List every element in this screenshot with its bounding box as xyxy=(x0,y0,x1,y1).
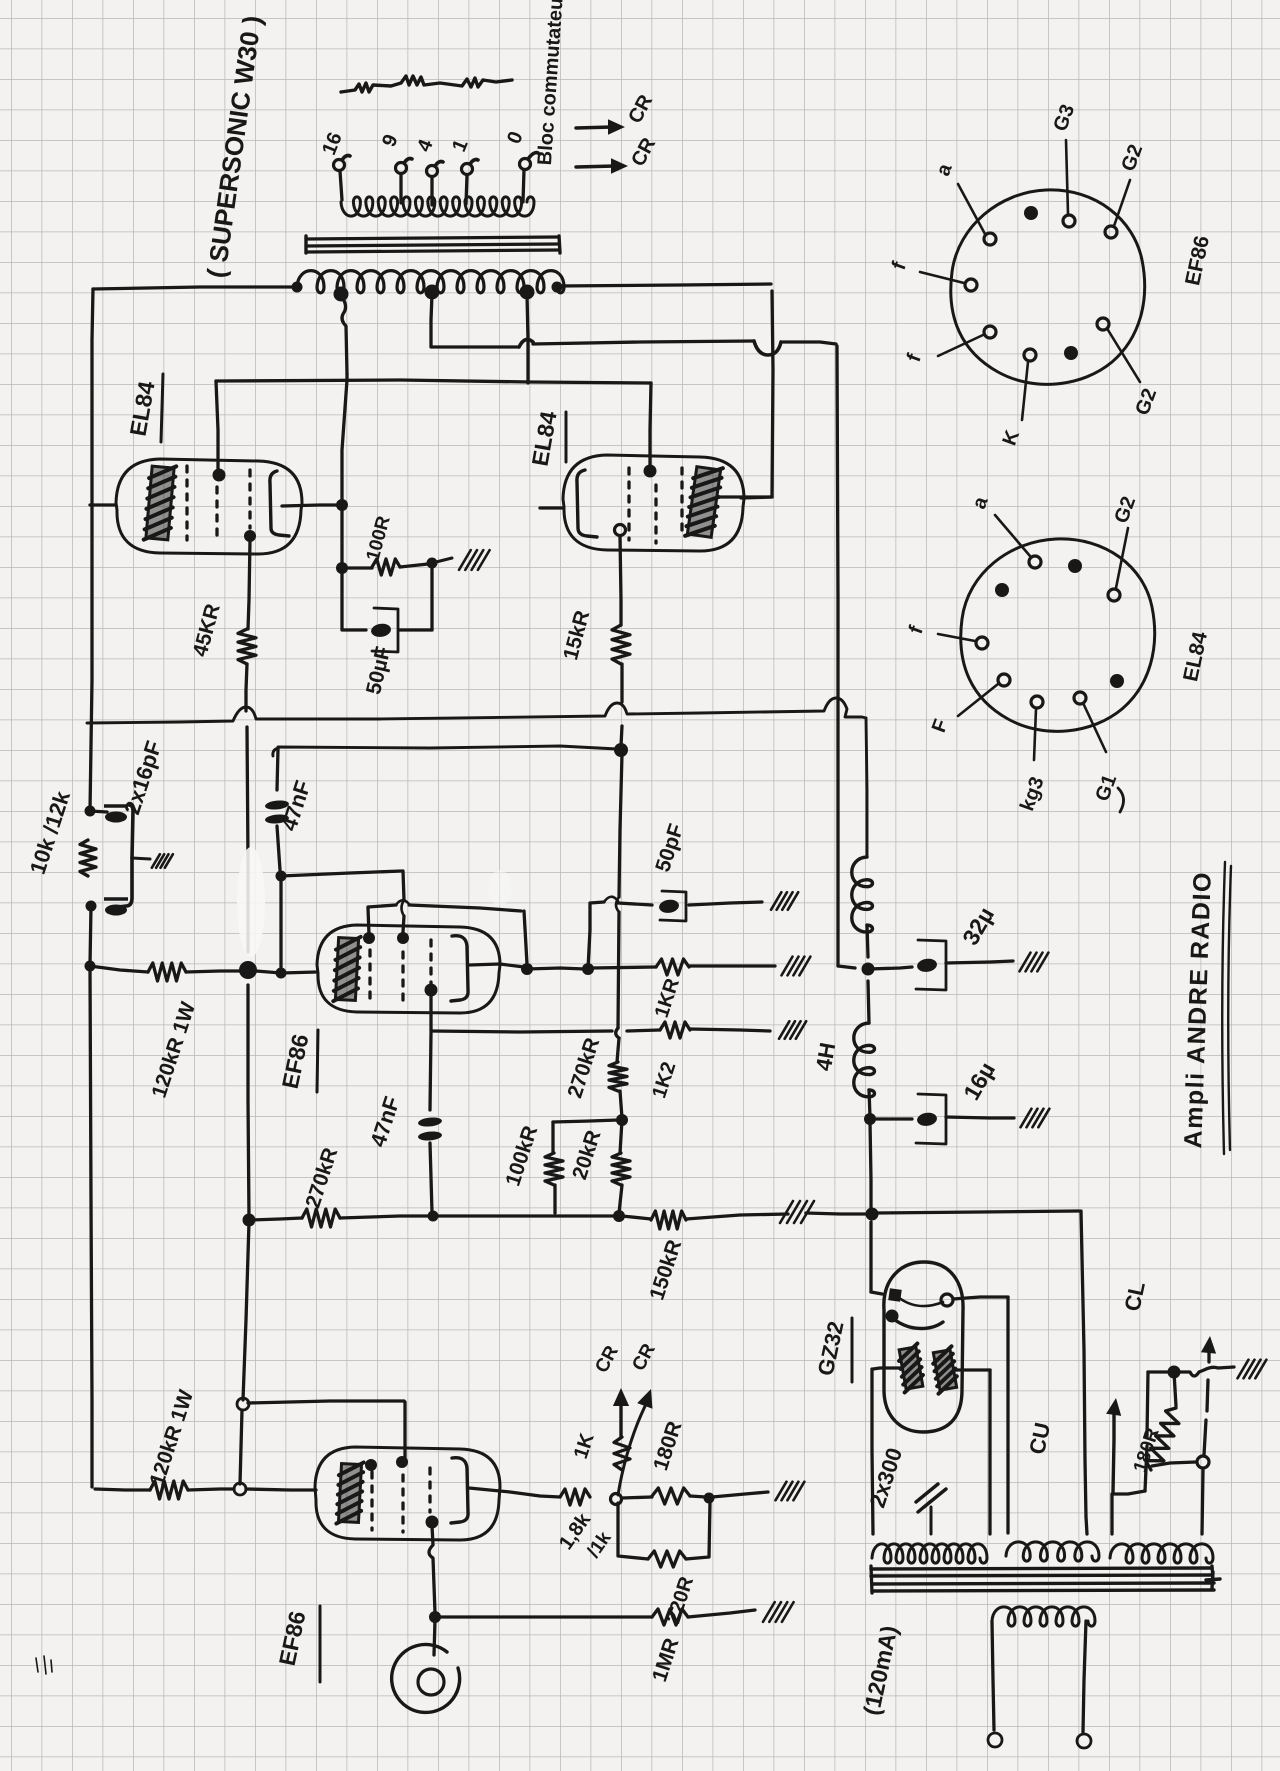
wire 100k to bus xyxy=(553,1185,556,1213)
wire anode line xyxy=(527,968,585,969)
tube GZ32 envelope xyxy=(884,1262,963,1432)
junction anode line 527 xyxy=(521,963,533,975)
wire screen node down xyxy=(430,1033,431,1110)
heater terminal left xyxy=(988,1733,1002,1747)
label EF86 V4 xyxy=(274,1606,320,1682)
wire choke to ground bus xyxy=(870,1121,871,1211)
resistor 180R bottom xyxy=(652,1488,690,1504)
wire ground bus seg6 xyxy=(806,1213,868,1214)
label 120kR 1W no2 xyxy=(146,1387,199,1489)
wire EF86 V3 pin1 up and right xyxy=(368,900,527,964)
transformer T2 core xyxy=(871,1566,1220,1593)
GZ32 pin dot xyxy=(886,1310,899,1323)
HT center tap wire xyxy=(930,1507,933,1534)
wire x247 down to 1403 xyxy=(243,1222,249,1400)
EL84 V1 grid dash 3 xyxy=(248,470,251,528)
wire heater sec left xyxy=(992,1621,994,1730)
wire EL84 V1 cathode pin down xyxy=(248,540,250,629)
wire primary-left to left rail xyxy=(93,287,297,289)
EL84 V1 pin top xyxy=(213,469,226,482)
wire junction up to ground xyxy=(432,558,452,563)
label 0 xyxy=(503,128,528,147)
wire grid bus to EL84 V1 pin xyxy=(216,381,218,472)
transformer T2 secondary (heater) winding xyxy=(992,1607,1095,1626)
label 120mA xyxy=(858,1623,902,1717)
EL84 V2 pin top xyxy=(644,465,657,478)
choke L2 (bottom section) xyxy=(854,1023,875,1097)
EF86 V4 anode bracket xyxy=(451,1458,468,1523)
resistor 1.8k xyxy=(560,1489,590,1505)
wire ground bus seg2 xyxy=(340,1216,430,1218)
wire 1KR to ground xyxy=(689,964,775,967)
transformer T1 primary winding xyxy=(297,271,564,293)
wire 45k to bus hop xyxy=(246,664,247,711)
label pin G2 bottom xyxy=(1131,386,1161,419)
EL84 socket dot 2 xyxy=(1068,559,1082,573)
EF86 socket pin f2 xyxy=(938,326,996,356)
wire winding left end up xyxy=(1110,1494,1113,1534)
heater arrow left xyxy=(1106,1398,1121,1492)
wire right leg xyxy=(1201,1336,1216,1534)
wire screen to 1K2 xyxy=(627,1030,660,1031)
resistor 120kR 1W no1 xyxy=(148,963,186,981)
resistor 15kR xyxy=(612,625,630,664)
HT cap marks 2x300 xyxy=(916,1484,946,1512)
capacitor 47nF no1 xyxy=(265,799,290,824)
ground 2x16pF midpoint xyxy=(152,854,173,868)
label socket F xyxy=(928,716,953,735)
EL84 socket pin f xyxy=(938,634,988,649)
junction 100k-270k xyxy=(616,1114,628,1126)
label socket a xyxy=(968,493,993,512)
resistor 270kR vertical xyxy=(609,1062,627,1091)
wire EF86 V4 anode out xyxy=(469,1488,560,1497)
junction ground bus left xyxy=(243,1214,256,1227)
label 120kR 1W no1 xyxy=(148,999,201,1101)
EL84 socket pin G1 xyxy=(1074,692,1106,752)
capacitor 47nF no2 xyxy=(418,1116,443,1141)
EF86 socket pin G2 bottom xyxy=(1097,318,1140,382)
ground right cluster xyxy=(1238,1360,1267,1379)
EF86 socket dot 1 xyxy=(1024,206,1038,220)
resistor 1KR xyxy=(656,959,689,975)
capacitor 32uF xyxy=(916,940,946,990)
heater terminal right xyxy=(1077,1734,1091,1748)
wire 1M line xyxy=(438,1615,652,1618)
tube EL84 V2 envelope xyxy=(563,455,744,551)
wire 15k to bus B xyxy=(621,664,622,746)
label pin G2 top xyxy=(1117,142,1147,175)
wire input line left xyxy=(90,966,148,972)
wire choke mid xyxy=(867,925,868,957)
EL84 V1 grid dash 1 xyxy=(185,466,188,540)
EL84 V2 grid dash 3 xyxy=(680,468,683,535)
wire right side up xyxy=(430,566,433,630)
label socket G1 xyxy=(1091,772,1121,805)
transformer T1 secondary winding xyxy=(341,197,534,216)
transformer T2 HT winding xyxy=(872,1544,987,1563)
ground 32uF xyxy=(1020,953,1049,972)
EF86 V3 cathode plate (hatched) xyxy=(333,936,360,1003)
wire EL84 V2 anode out xyxy=(717,495,772,498)
capacitor 16pF a xyxy=(104,806,128,823)
junction input node xyxy=(276,968,287,979)
junction circle 1404 xyxy=(237,1398,249,1410)
wire choke to 16uF junction xyxy=(869,1090,870,1117)
EF86 V4 pin top 1 xyxy=(365,1459,377,1471)
socket diagram EL84 xyxy=(961,539,1155,731)
EF86 V3 grid dash 3 xyxy=(429,940,432,985)
junction circle 1202 xyxy=(1197,1456,1209,1468)
label 1 xyxy=(448,136,473,155)
label Bloc commutateur xyxy=(534,0,568,166)
EL84 V1 anode xyxy=(270,471,289,536)
wire ground bus seg5 xyxy=(686,1214,788,1219)
EL84 V2 grid dash 2 xyxy=(654,485,657,543)
wire to input jack xyxy=(434,1620,435,1655)
wire plate2 right xyxy=(954,1368,990,1371)
EL84 socket dot 1 xyxy=(995,583,1009,597)
wire anode line to 1KR xyxy=(591,967,656,968)
label pin K xyxy=(999,427,1025,449)
junction 47nF bottom xyxy=(276,871,287,882)
wire 47nF to junction xyxy=(277,826,280,870)
speaker load resistor (squiggle) xyxy=(341,76,512,92)
wire bus A (B+ rail) xyxy=(87,698,866,723)
wire cathode drop x1008 xyxy=(1006,1297,1009,1533)
wire cap to right xyxy=(399,628,432,631)
EF86 V3 anode bracket xyxy=(451,936,468,1001)
wire input node to tube xyxy=(281,972,317,973)
label 50pF xyxy=(651,821,688,875)
label 45KR xyxy=(189,601,225,659)
wire 1M to ground xyxy=(688,1610,755,1617)
wire 220R up xyxy=(686,1502,710,1559)
transformer T2 5V winding xyxy=(1006,1542,1099,1561)
ground 1KR xyxy=(782,957,811,976)
label CR top 2 xyxy=(627,134,660,170)
wire bus B xyxy=(273,746,617,756)
EF86 socket pin f1 xyxy=(920,272,977,291)
ground 1M line xyxy=(763,1602,794,1622)
wire plate2 drop x990 xyxy=(988,1370,991,1534)
label 47nF no2 xyxy=(365,1093,405,1150)
wire bus B left drop xyxy=(277,749,278,790)
EF86 V4 cathode plate (hatched) xyxy=(336,1461,363,1525)
wire node to 180R xyxy=(622,1497,652,1498)
resistor 150kR xyxy=(651,1211,686,1229)
junction 47nF2 bus xyxy=(428,1211,439,1222)
tube EF86 V3 envelope xyxy=(317,925,500,1013)
(smudge) xyxy=(237,847,512,957)
label 180R right xyxy=(1130,1425,1164,1475)
label EF86 socket xyxy=(1181,234,1214,288)
wire left leg 1148 xyxy=(1114,1372,1148,1494)
label pin G3 xyxy=(1049,102,1079,135)
wire 120k to blob xyxy=(186,971,240,972)
resistor 120kR 1W no2 xyxy=(150,1481,188,1499)
resistor 220R xyxy=(648,1551,686,1567)
wire to ground 180R xyxy=(712,1492,768,1497)
label CR mid 2 xyxy=(628,1340,660,1374)
wire rail x247 (45k line) down xyxy=(248,985,249,1218)
wire bus corner down x1085 xyxy=(1081,1211,1087,1534)
EF86 V4 grid dash 1 xyxy=(370,1472,373,1530)
tube EL84 V1 envelope xyxy=(116,459,302,554)
ground 50pF xyxy=(771,892,798,910)
tap B on T1 primary xyxy=(425,285,440,300)
label EL84 V1 xyxy=(125,374,163,442)
wire 50pF to ground xyxy=(689,902,762,905)
GZ32 plate 1 (hatched) xyxy=(897,1344,926,1393)
resistor 20kR xyxy=(612,1153,630,1185)
EF86 V4 pin top 2 xyxy=(396,1456,408,1468)
label 2x300 xyxy=(865,1445,908,1511)
resistor 100kR xyxy=(545,1153,563,1185)
junction anode line 588 xyxy=(582,963,594,975)
junction 16uF tap xyxy=(864,1113,876,1125)
wire circle to tube V4 xyxy=(246,1489,316,1490)
resistor 180R right xyxy=(1146,1408,1179,1470)
wire GZ32 cathode right xyxy=(953,1297,1008,1299)
label CR top 1 xyxy=(624,91,657,127)
wire grid bus to EL84 V2 pin xyxy=(650,383,651,468)
wire choke mid2 xyxy=(868,981,869,1023)
wire y1403 line xyxy=(248,1401,405,1458)
EF86 socket pin G2 top xyxy=(1105,180,1130,238)
wire anode node down xyxy=(340,505,343,567)
label socket kg3 xyxy=(1016,774,1048,814)
faint corner scribble xyxy=(36,1656,52,1674)
label 32uF xyxy=(957,903,999,950)
wire cap mid tap xyxy=(132,858,150,859)
transformer T2 heater winding right xyxy=(1110,1544,1213,1563)
wire V2 to 270k xyxy=(617,1038,619,1062)
wire 45k below hop to EF86 anode xyxy=(247,727,248,952)
GZ32 pin circle xyxy=(941,1294,953,1306)
wire 20k to bus xyxy=(619,1185,622,1213)
junction bus B right end xyxy=(614,743,628,757)
wire tap C down xyxy=(527,294,528,383)
resistor 270kR horizontal xyxy=(302,1209,340,1227)
transformer T1 secondary terminal 9 xyxy=(396,159,413,204)
junction cathode 1M xyxy=(429,1611,441,1623)
EF86 V3 pin top 1 xyxy=(363,932,375,944)
GZ32 filament arc xyxy=(895,1297,943,1329)
EF86 socket pin a xyxy=(958,184,996,245)
wire heater sec right xyxy=(1083,1621,1086,1732)
wire screen rail x837 vertical xyxy=(837,346,855,968)
wire V4 cathode down xyxy=(429,1526,435,1613)
label GZ32 xyxy=(813,1318,852,1382)
label 1MR xyxy=(648,1635,684,1684)
ground EL84 V1 cathode xyxy=(459,550,490,570)
wire to cap 50uF xyxy=(342,628,366,631)
label 16 xyxy=(318,129,347,158)
EF86 socket pin G3 xyxy=(1063,140,1075,227)
wire EF86 V3 anode out xyxy=(469,964,524,967)
cap right bar xyxy=(129,805,133,858)
wire EL84 V2 pin down xyxy=(620,536,621,625)
junction rail input line xyxy=(85,961,96,972)
wire tap A down xyxy=(341,296,347,374)
junction circle 1489 xyxy=(234,1483,246,1495)
wire 100R to junction xyxy=(400,564,428,567)
EL84 V2 anode plate (hatched) xyxy=(685,464,723,539)
label 1KR xyxy=(651,975,684,1020)
input jack xyxy=(392,1644,460,1712)
EL84 V2 anode bracket xyxy=(577,470,597,537)
GZ32 pin square xyxy=(888,1288,902,1302)
EF86 V3 pin top 2 xyxy=(397,932,409,944)
label 10k/12k xyxy=(25,787,75,877)
EF86 V3 pin bottom xyxy=(425,984,438,997)
label 15kR xyxy=(559,608,594,662)
label 270kR horizontal xyxy=(301,1145,342,1211)
wire rail continue down xyxy=(90,966,92,1487)
junction ground bus 619 xyxy=(613,1210,625,1222)
junction circle 1k node xyxy=(611,1494,622,1505)
junction primary left end xyxy=(292,282,303,293)
label 180R bottom xyxy=(649,1419,686,1474)
wire screen line xyxy=(431,994,612,1032)
EF86 socket pin K xyxy=(1022,349,1036,420)
label 2x16pF xyxy=(119,738,166,818)
wire y875 to EF86 grid xyxy=(281,871,404,932)
wire rail cap1 xyxy=(90,811,107,812)
wire 588 up to 50pF line xyxy=(588,897,652,969)
label 20kR xyxy=(568,1128,605,1183)
wire 1K arrow xyxy=(613,1388,629,1437)
wire into EL84 V1 left xyxy=(90,503,116,506)
stray arc mark xyxy=(1118,788,1124,812)
junction primary right end xyxy=(552,282,563,293)
junction choke mid xyxy=(862,963,875,976)
junction y1371 dot xyxy=(1168,1366,1181,1379)
capacitor 16pF b xyxy=(104,858,132,916)
label slash1k xyxy=(583,1528,616,1562)
EF86 V3 grid dash 2 xyxy=(401,952,404,1005)
wire left rail (B+ feed left) xyxy=(90,289,93,811)
label 16uF xyxy=(958,1058,1000,1105)
GZ32 plate 2 (hatched) xyxy=(931,1346,959,1393)
ground 1K2 xyxy=(779,1021,806,1039)
wire 180R top xyxy=(1174,1372,1176,1406)
label pin f2 xyxy=(903,351,926,365)
wire 180R bottom xyxy=(1152,1462,1196,1466)
wire plate1 left xyxy=(873,1368,902,1369)
capacitor 50uF xyxy=(370,608,398,652)
svg-text:4H: 4H xyxy=(811,1041,841,1073)
label 1K xyxy=(570,1430,599,1462)
EL84 V1 cathode plate (hatched) xyxy=(144,464,177,542)
EL84 V1 grid dash 2 xyxy=(215,487,218,540)
capacitor 50pF xyxy=(658,891,686,921)
tube EF86 V4 envelope xyxy=(315,1447,500,1540)
label 220R xyxy=(662,1573,698,1626)
wire 120k2 to circle xyxy=(188,1489,234,1490)
label CR mid 1 xyxy=(591,1342,623,1376)
label pin f1 xyxy=(888,259,911,273)
wire CR curve arrow xyxy=(618,1389,653,1495)
wire y1489 line xyxy=(95,1489,150,1490)
tap C on T1 primary xyxy=(520,285,535,300)
title Ampli ANDRE RADIO xyxy=(1179,871,1217,1149)
CR arrow top 1 xyxy=(576,119,625,134)
wire y1371 line xyxy=(1148,1367,1234,1376)
EL84 V1 pin bottom xyxy=(244,530,256,542)
wire ground bus seg4 xyxy=(622,1216,651,1219)
wire bus A corner down to choke xyxy=(866,718,867,857)
CR arrow top 2 xyxy=(576,158,628,173)
wire bus down to GZ32 xyxy=(871,1222,882,1294)
choke L1 (top section) xyxy=(852,857,873,932)
wire 47nF junction down xyxy=(279,876,282,968)
wire ground bus seg1 xyxy=(249,1218,302,1220)
wire 180R to gnd dot xyxy=(690,1496,706,1497)
wire 32uF to ground xyxy=(946,961,1013,963)
wire ground bus seg7 xyxy=(876,1211,1079,1213)
resistor 100R xyxy=(372,559,400,575)
transformer T1 secondary terminal 16 xyxy=(334,156,351,201)
label 270kR vertical xyxy=(563,1035,604,1101)
label pin a xyxy=(932,160,957,179)
wire ground bus seg3 xyxy=(436,1214,616,1217)
wire dot to 20k xyxy=(620,1120,622,1153)
wire 100k upper xyxy=(551,1122,554,1153)
label 100kR xyxy=(501,1123,542,1189)
EL84 V2 pin bottom xyxy=(615,525,626,536)
wire 1K2 to ground xyxy=(690,1029,770,1031)
label socket G2 xyxy=(1110,494,1140,527)
label 4 xyxy=(413,136,438,155)
wire EL84 V1 anode out xyxy=(282,505,342,506)
label 150kR xyxy=(645,1237,686,1303)
EF86 V4 grid dash 3 xyxy=(428,1468,431,1512)
wire into EL84 V2 left xyxy=(540,506,563,509)
wire V2 vertical below busB xyxy=(616,754,622,1028)
label socket f xyxy=(905,623,928,637)
wire 220R loop xyxy=(618,1503,648,1559)
wire 270k to dot xyxy=(620,1091,622,1118)
wire grid bus y381 xyxy=(216,380,651,383)
EL84 socket pin G2 xyxy=(1108,528,1128,601)
resistor 10k on rail xyxy=(80,840,96,876)
label 4H xyxy=(811,1041,841,1073)
label 9 xyxy=(378,131,403,150)
resistor 1MR xyxy=(652,1609,688,1625)
wire blob to input node xyxy=(256,971,281,973)
EL84 socket dot 3 xyxy=(1110,674,1124,688)
EF86 V4 pin bottom xyxy=(426,1516,439,1529)
label EF86 V3 xyxy=(277,1030,318,1092)
resistor 1K2 xyxy=(660,1022,690,1038)
junction blob EF86 anode node xyxy=(239,961,257,979)
tap A on T1 primary xyxy=(334,287,349,302)
wire 16uF to ground xyxy=(946,1117,1014,1118)
title underline xyxy=(1222,862,1231,1154)
label EL84 socket xyxy=(1179,629,1212,683)
label EL84 V2 xyxy=(527,409,566,468)
wire plate1 drop x872 xyxy=(872,1369,873,1534)
EL84 socket pin a xyxy=(995,515,1041,568)
wire x247 1404-1489 xyxy=(240,1410,242,1484)
wire 47nF2 down xyxy=(430,1143,432,1212)
junction 100R right xyxy=(427,558,438,569)
wire cathode to 100R xyxy=(342,566,372,569)
socket diagram EF86 xyxy=(951,190,1145,384)
EF86 socket dot 2 xyxy=(1064,346,1078,360)
